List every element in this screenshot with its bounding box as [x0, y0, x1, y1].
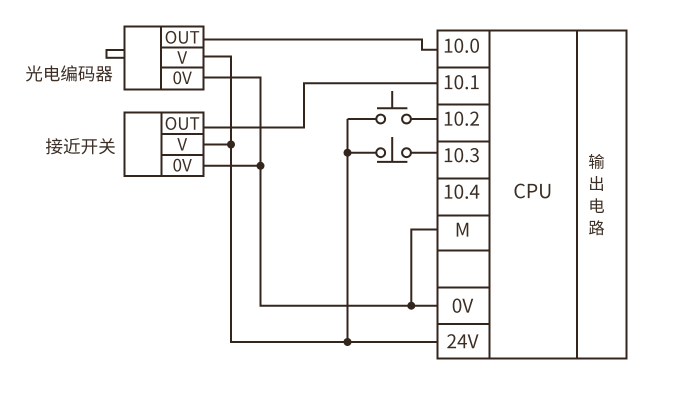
- wire: proximity 0V to 0V drop: [204, 165, 261, 167]
- proximity cell divider V/0V: [162, 154, 204, 156]
- label: output circuit 输出电路: [589, 154, 604, 235]
- photoelectric encoder body+terminal outline: [125, 27, 204, 90]
- CPU / output-circuit divider: [576, 31, 578, 359]
- encoder cell divider V/0V: [161, 67, 204, 69]
- SB2 right contact circle: [402, 148, 411, 157]
- terminal label I0.3: [445, 148, 479, 162]
- encoder pin label V: [177, 51, 187, 63]
- junction: SB2 lead taps pushbutton common drop: [344, 149, 352, 157]
- encoder pin label 0V: [173, 71, 191, 84]
- terminal label I0.2: [445, 111, 479, 125]
- encoder cell divider OUT/V: [161, 47, 204, 49]
- junction: pushbutton common meets 24V rail: [344, 338, 352, 346]
- SB2 bridge bar (NC): [377, 161, 407, 163]
- SB2 left contact circle: [376, 148, 385, 157]
- terminal label I0.1: [445, 75, 479, 89]
- proximity pin label OUT: [166, 117, 200, 130]
- wire: proximity OUT up to terminal I0.1: [204, 83, 438, 127]
- SB1 actuator stem: [391, 91, 393, 108]
- SB1 right contact circle: [402, 115, 411, 124]
- terminal cell divider 7: [438, 287, 490, 289]
- junction: proximity V taps 24V drop: [227, 141, 235, 149]
- encoder body/terminal divider: [160, 27, 162, 90]
- SB1 bridge bar (NO): [377, 107, 407, 109]
- terminal cell divider 6: [438, 250, 490, 252]
- terminal cell divider 4: [438, 178, 490, 180]
- terminal label 24V: [447, 334, 478, 348]
- label CPU: [515, 184, 551, 199]
- encoder shaft tab: [107, 50, 125, 58]
- wire: encoder 0V down to 0V rail and terminal 0V: [204, 78, 438, 306]
- junction: proximity 0V taps 0V drop: [257, 162, 265, 170]
- encoder pin label OUT: [166, 31, 200, 44]
- terminal label 0V: [453, 298, 474, 312]
- proximity body/terminal divider: [161, 113, 163, 177]
- terminal label I0.0: [445, 38, 479, 52]
- junction: M branch meets 0V rail: [407, 302, 415, 310]
- wire: terminal M to 0V rail: [411, 230, 437, 306]
- proximity switch body+terminal outline: [125, 113, 204, 177]
- label: proximity switch 接近开关: [46, 138, 115, 154]
- proximity cell divider OUT/V: [162, 133, 204, 135]
- SB2 left lead: [348, 152, 377, 154]
- SB1 right lead to terminal I0.2: [411, 118, 437, 120]
- terminal cell divider 2: [438, 104, 490, 106]
- SB2 right lead to terminal I0.3: [411, 152, 437, 154]
- wire: pushbutton common drop to 24V rail: [347, 119, 349, 342]
- wire: proximity V to 24V drop: [204, 144, 232, 146]
- terminal label M: [457, 223, 469, 237]
- CPU terminal column right edge: [489, 31, 491, 359]
- label: photoelectric encoder 光电编码器: [26, 65, 112, 81]
- terminal cell divider 1: [438, 67, 490, 69]
- SB2 actuator stem: [391, 137, 393, 162]
- terminal cell divider 5: [438, 215, 490, 217]
- terminal label I0.4: [445, 184, 480, 198]
- wire: encoder OUT to terminal I0.0: [204, 40, 438, 50]
- wire: encoder V down to 24V rail and terminal 24V: [204, 57, 438, 343]
- proximity pin label 0V: [173, 159, 191, 172]
- proximity pin label V: [177, 138, 187, 150]
- SB1 left lead: [348, 118, 377, 120]
- terminal cell divider 8: [438, 323, 490, 325]
- PLC CPU block outline: [438, 31, 627, 359]
- terminal cell divider 3: [438, 141, 490, 143]
- SB1 left contact circle: [376, 115, 385, 124]
